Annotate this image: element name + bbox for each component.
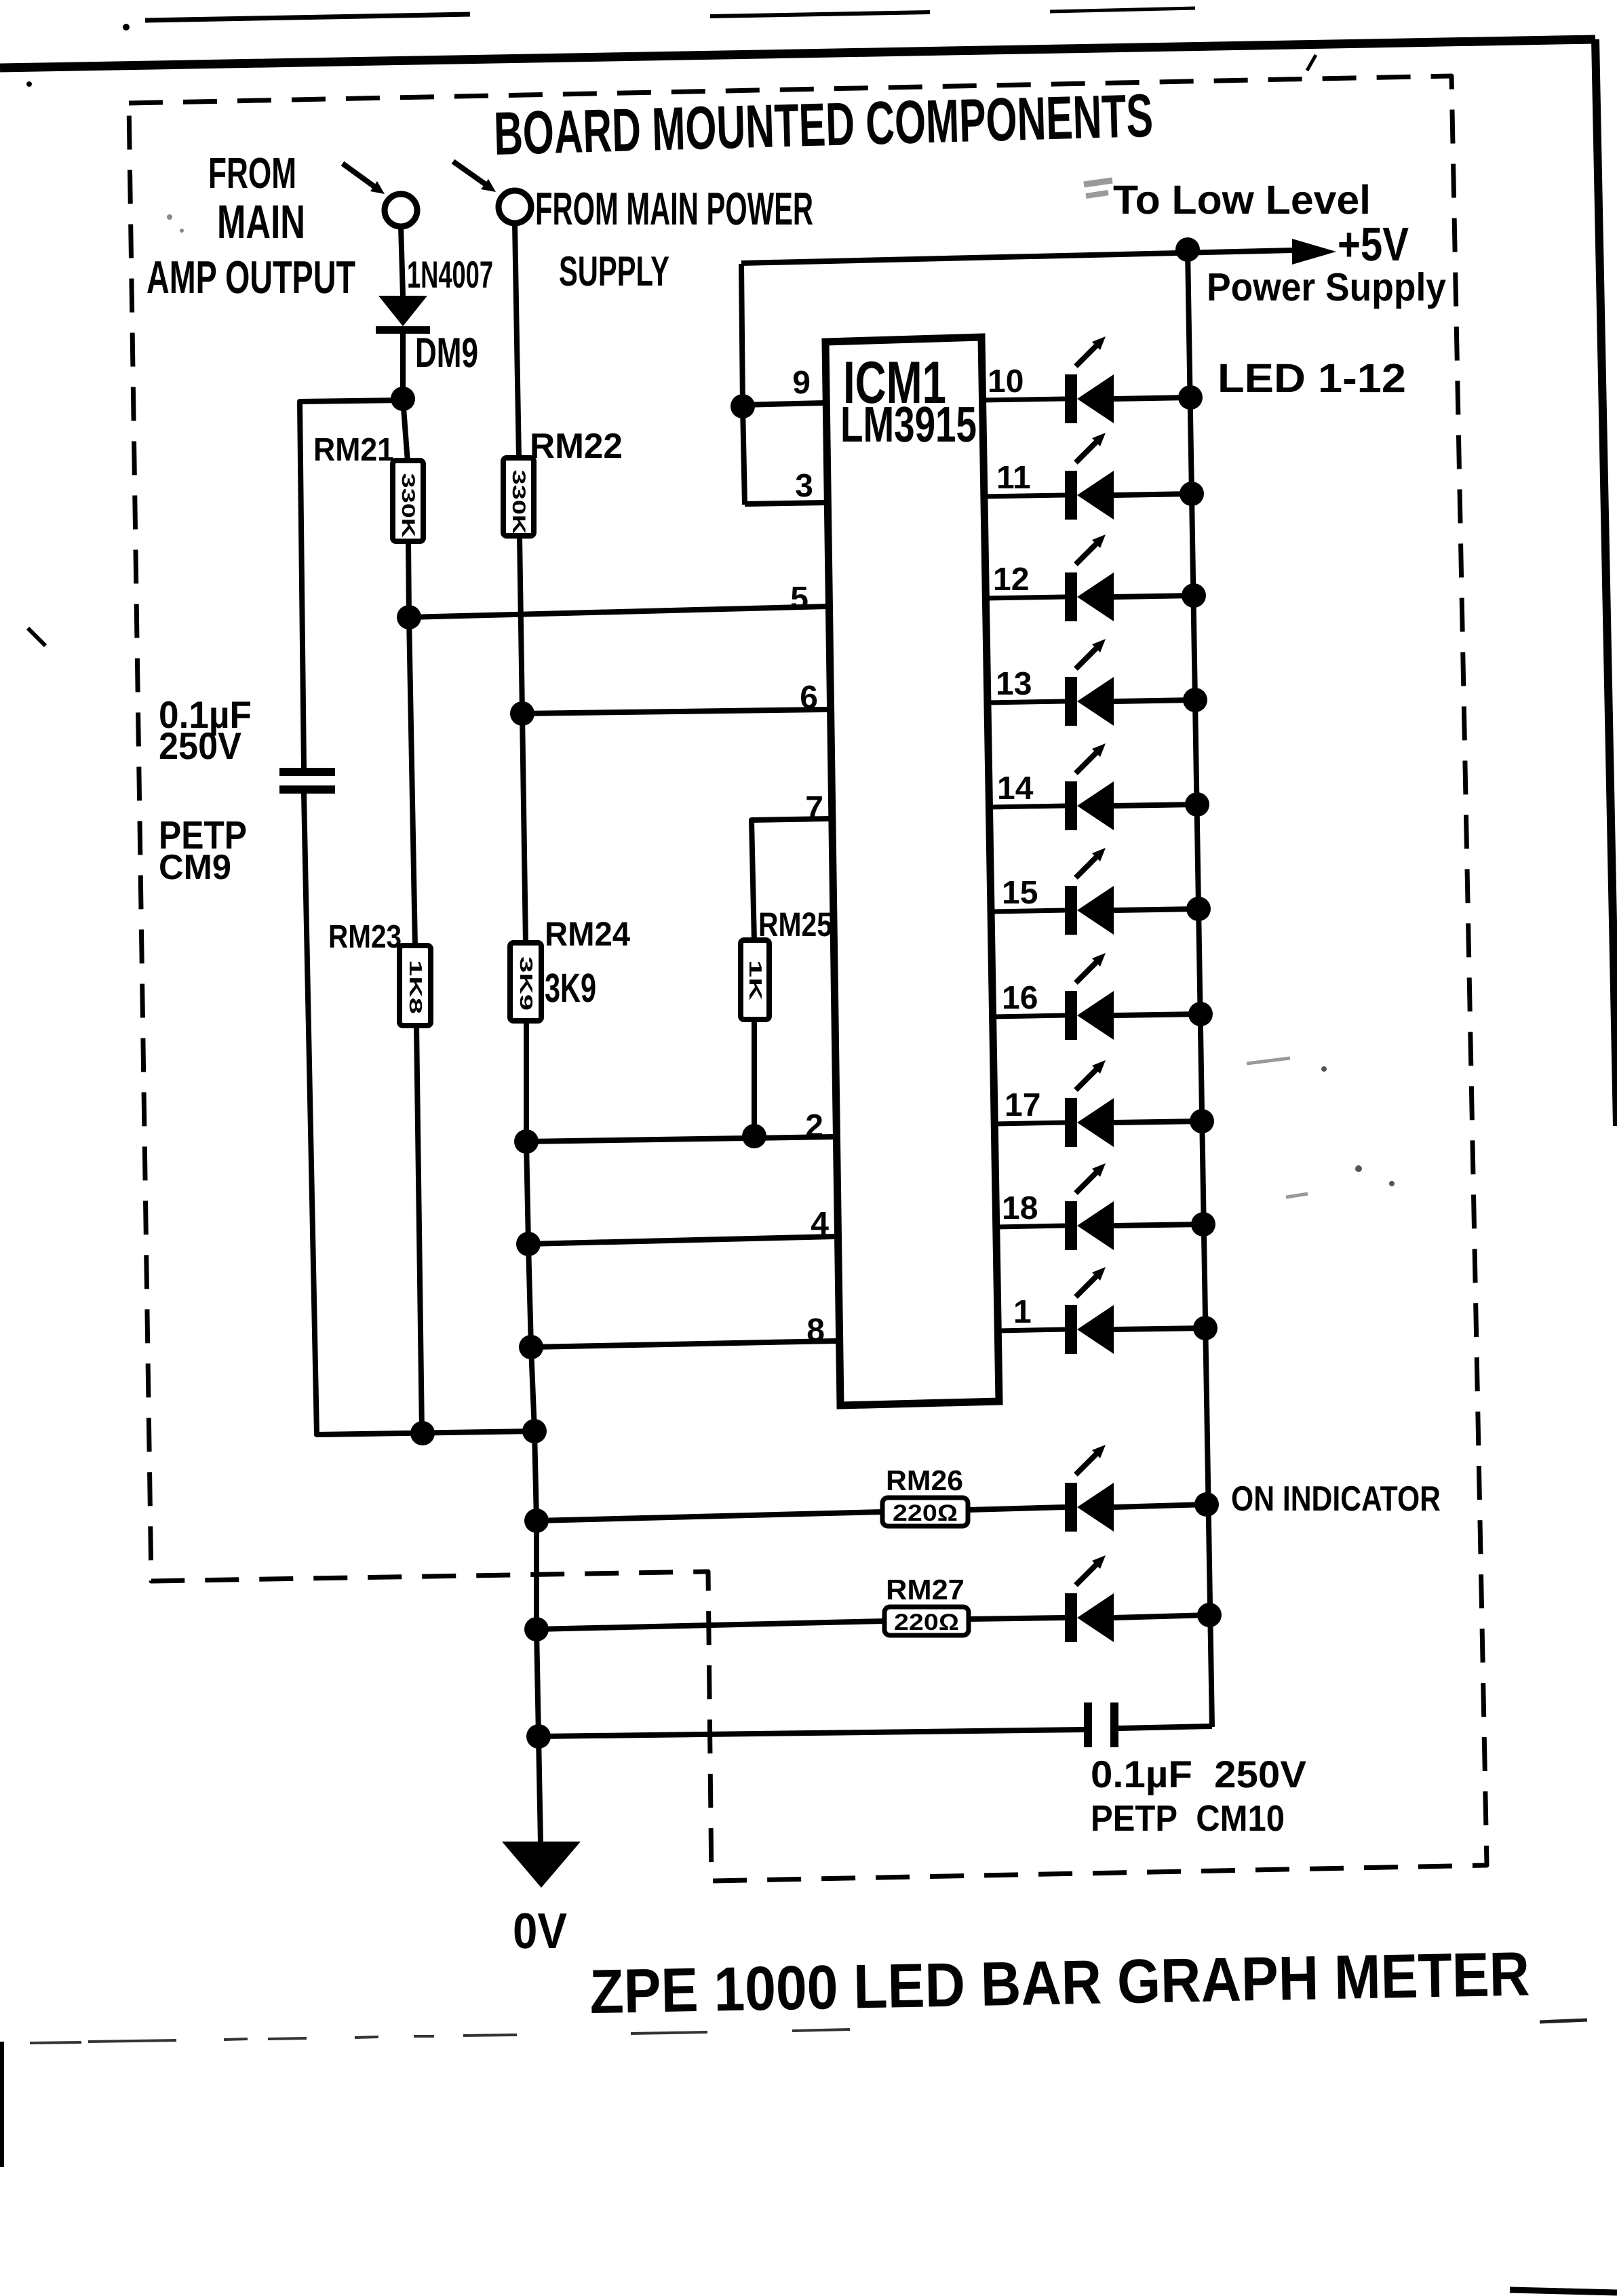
wire: IC pin 16 to LED7 [993,1015,1065,1017]
LED 6 [1065,848,1114,935]
wire: RM27 to LED12 [969,1618,1065,1619]
svg-text:0.1µF 250V: 0.1µF 250V [1091,1753,1306,1795]
svg-text:250V: 250V [159,724,241,767]
svg-text:0V: 0V [513,1903,567,1959]
svg-text:RM23: RM23 [328,919,402,955]
svg-text:2: 2 [805,1108,823,1144]
input terminal: From Main Amp Output [385,194,417,227]
switch arrow (power input) [453,161,496,192]
svg-text:13: 13 [996,666,1032,702]
svg-text:5: 5 [790,581,808,617]
node A (junction below DM9) [391,387,415,411]
wire: RM23 to bottom rail node [416,1026,422,1433]
svg-text:7: 7 [805,790,823,826]
junction: LED11 / bus [1194,1492,1219,1517]
wire: pin 3 row [745,503,825,504]
wire: +5V rail loop to pin 9 [741,264,745,505]
wire: LED2 anode to +5V bus [1114,494,1192,495]
wire: IC pin 12 to LED3 [986,597,1065,598]
label: From Main Amp Output [147,149,355,303]
svg-text:AMP OUTPUT: AMP OUTPUT [147,252,355,303]
wire: node C to RM24 [522,714,526,944]
svg-text:9: 9 [792,365,811,401]
wire: LED7 anode to +5V bus [1114,1014,1201,1015]
node: bottom rail junction [522,1419,547,1443]
svg-text:LM3915: LM3915 [840,396,977,452]
resistor RM22 (330K) [503,458,534,536]
LED 11 (ON indicator) [1065,1445,1114,1532]
wire: IC pin 1 to LED10 [998,1329,1065,1331]
wire: diode to node A [400,334,406,399]
svg-text:To Low Level: To Low Level [1113,177,1371,222]
LED 4 [1065,639,1114,726]
wire: power terminal to RM22 [515,223,519,459]
node: pin8 row junction [519,1335,543,1359]
wire: LED5 anode to +5V bus [1114,804,1197,806]
node B (RM21/pin5 junction) [397,605,421,629]
junction: LED5 / bus [1185,792,1209,817]
resistor RM27 (220R) [884,1607,969,1635]
wire: pin 4 row [528,1237,835,1244]
node: RM27 row junction [524,1617,549,1641]
svg-text:220Ω: 220Ω [894,1610,959,1635]
arrow: +5V output [1292,239,1336,265]
wire: LED12 anode to bus [1114,1615,1209,1618]
svg-text:18: 18 [1002,1190,1038,1226]
svg-text:4: 4 [811,1206,829,1242]
resistor RM21 (330K) [393,461,423,541]
svg-text:RM22: RM22 [530,427,623,466]
LED 3 [1065,534,1114,621]
wire: node B to RM23 [409,617,415,947]
svg-text:RM26: RM26 [886,1464,963,1496]
svg-text:1: 1 [1013,1294,1032,1330]
LED 9 [1065,1163,1114,1250]
svg-text:10: 10 [988,364,1024,400]
wire: +5V rail [741,250,1294,263]
wire: IC pin 18 to LED9 [996,1226,1065,1227]
resistor RM23 (1K8) [400,946,431,1026]
IC ICM1 LM3915 [825,337,999,1405]
junction: LED2 / bus [1180,482,1204,506]
LED 5 [1065,743,1114,830]
junction: RM23 / bottom rail [410,1421,435,1445]
capacitor CM9 [279,768,335,794]
junction: LED6 / bus [1186,897,1211,921]
node: pin4 row junction [516,1232,541,1256]
LED 12 (ON indicator) [1065,1555,1114,1642]
LED 8 [1065,1060,1114,1147]
svg-text:8: 8 [806,1312,825,1348]
LED 7 [1065,953,1114,1040]
wire: amp terminal to diode DM9 [401,227,403,296]
svg-text:330K: 330K [509,470,529,535]
wire: LED1 anode to +5V bus [1114,397,1190,399]
wire: pin 5 row (node B to IC) [409,606,827,617]
wire: RM21 to node B [408,541,409,617]
LED 2 [1065,433,1114,520]
wire: 0V rail to CM10 [539,1730,1084,1736]
wire: IC pin 14 to LED5 [989,806,1065,807]
svg-text:14: 14 [997,771,1034,806]
junction: LED7 / bus [1188,1002,1213,1026]
svg-text:Power Supply: Power Supply [1207,265,1446,309]
wire: RM22 to node C [520,536,522,714]
board outline (dashed) [129,76,1487,1881]
wire: pin 6 row (node C to IC) [522,709,829,714]
node: RM26 row junction [524,1509,549,1533]
wire: IC pin 15 to LED6 [991,910,1065,912]
wire: node A to capacitor CM9 [300,400,403,768]
wire: pin 2 row [526,1137,834,1142]
svg-text:15: 15 [1002,875,1038,911]
svg-text:220Ω: 220Ω [893,1500,958,1526]
wire: node A to RM21 [403,399,408,462]
wire: IC pin 11 to LED2 [984,495,1065,497]
junction: +5V rail / LED bus [1175,237,1200,262]
svg-text:1N4007: 1N4007 [407,253,493,296]
svg-text:DM9: DM9 [415,330,478,376]
svg-text:ON INDICATOR: ON INDICATOR [1231,1479,1441,1519]
svg-text:3K9: 3K9 [545,965,596,1011]
wire: LED6 anode to +5V bus [1114,909,1199,910]
svg-text:12: 12 [993,562,1029,598]
junction: LED8 / bus [1190,1109,1214,1133]
wire: 0V rail to RM26 [537,1512,882,1521]
wire: LED8 anode to +5V bus [1114,1121,1202,1123]
capacitor CM10 [1084,1702,1118,1747]
wire: pin 9 row [743,403,825,405]
wire: LED11 anode to bus [1114,1504,1207,1507]
junction: LED12 / bus [1197,1603,1222,1627]
junction: RM25 / pin2 row [742,1124,766,1148]
LED 1 [1065,336,1114,423]
diode DM9 (1N4007) [376,296,430,334]
svg-text:FROM MAIN POWER: FROM MAIN POWER [535,183,813,235]
svg-text:RM24: RM24 [545,915,630,953]
node: pin2 row junction [514,1129,539,1154]
junction: LED3 / bus [1182,583,1206,608]
switch arrow (amp input) [343,163,385,194]
node C (RM22/pin6 junction) [510,701,534,726]
svg-text:SUPPLY: SUPPLY [559,248,669,295]
svg-text:FROM: FROM [208,149,296,197]
svg-text:1K: 1K [745,960,766,1000]
wire: 0V rail to RM27 [537,1621,884,1629]
svg-text:330K: 330K [398,473,418,539]
svg-text:+5V: +5V [1338,218,1409,271]
wire: pin 8 row [531,1341,836,1347]
junction: LED10 / bus [1193,1316,1217,1340]
ground symbol 0V [502,1842,581,1888]
resistor RM25 (1K) [741,940,769,1019]
wire: CM10 to bus corner [1118,1726,1212,1728]
junction: LED4 / bus [1183,688,1207,712]
wire: pin 7 to RM25 [752,819,830,941]
resistor RM26 (220R) [882,1498,968,1526]
wire: LED10 anode to +5V bus [1114,1328,1205,1329]
svg-text:3K9: 3K9 [516,956,537,1011]
junction: pin 9 [730,394,755,419]
wire: RM26 to LED11 [968,1507,1065,1510]
wire: IC pin 17 to LED8 [994,1123,1065,1124]
wire: CM9 to bottom rail [304,794,534,1435]
svg-text:CM9: CM9 [159,848,231,887]
label: PETP CM9 [159,813,247,887]
svg-text:11: 11 [996,460,1031,496]
wire: LED3 anode to +5V bus [1114,596,1194,597]
LED 10 [1065,1267,1114,1354]
input terminal: From Main Power Supply [499,191,531,223]
wire: RM25 to pin 2 row [752,1019,757,1137]
node: CM10 row junction [526,1724,551,1749]
wire: IC pin 13 to LED4 [988,701,1065,703]
svg-text:RM27: RM27 [886,1574,965,1606]
svg-text:1K8: 1K8 [406,960,426,1014]
svg-text:LED 1-12: LED 1-12 [1217,355,1406,401]
wire: LED4 anode to +5V bus [1114,700,1195,701]
svg-text:17: 17 [1005,1087,1040,1123]
wire: +5V LED bus [1188,250,1212,1727]
svg-text:16: 16 [1002,980,1038,1016]
wire: RM24 down the 0V rail to ground [526,1021,541,1843]
label: From Main Power Supply [535,183,813,295]
junction: LED1 / bus [1178,385,1203,410]
value label: 0.1uF 250V (CM9) [159,693,252,767]
svg-text:MAIN: MAIN [217,195,305,248]
wire: IC pin 10 to LED1 [982,399,1065,400]
svg-text:3: 3 [795,468,813,504]
svg-text:PETP CM10: PETP CM10 [1091,1798,1285,1839]
junction: LED9 / bus [1191,1212,1215,1237]
svg-text:RM25: RM25 [758,906,832,943]
svg-text:6: 6 [800,680,818,716]
resistor RM24 (3K9) [510,943,541,1021]
svg-text:RM21: RM21 [313,432,394,468]
wire: LED9 anode to +5V bus [1114,1224,1203,1226]
